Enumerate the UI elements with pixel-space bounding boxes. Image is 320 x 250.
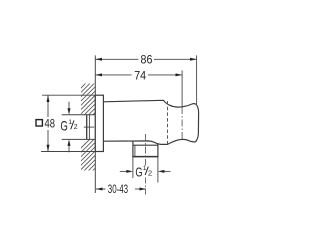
square 48 top arrow bbox=[47, 95, 50, 102]
outlet centre line bbox=[145, 134, 147, 166]
holder right edge bbox=[195, 104, 198, 142]
svg-text:30-43: 30-43 bbox=[108, 182, 129, 196]
svg-text:G: G bbox=[60, 119, 68, 134]
left G1/2 up arrow bbox=[68, 143, 70, 152]
dimension 74 right extension line becoming holder centre line bbox=[181, 70, 183, 107]
svg-text:G: G bbox=[135, 165, 142, 180]
wall hatching bbox=[79, 72, 97, 189]
square 48 bottom arrow bbox=[47, 145, 50, 152]
square flange escutcheon bbox=[95, 95, 103, 151]
svg-text:1: 1 bbox=[68, 119, 72, 126]
body bottom edge and holder bottom wave bbox=[103, 139, 195, 144]
G1/2 inlet behind wall top edge with left extension bbox=[62, 114, 96, 116]
inlet centre line tick bbox=[84, 126, 94, 128]
bottom G1/2 left extension line bbox=[132, 157, 134, 178]
outlet nut shoulder line bbox=[133, 144, 158, 146]
outlet nut bottom edge bbox=[132, 156, 158, 158]
dimension 74 right arrow bbox=[176, 73, 183, 76]
dimension 74 line bbox=[95, 74, 182, 76]
square symbol bbox=[36, 120, 42, 126]
inlet thread relief line bbox=[88, 115, 90, 140]
svg-text:74: 74 bbox=[134, 69, 146, 82]
outlet boss right edge bbox=[157, 143, 159, 157]
square 48 dimension bottom extension line bbox=[41, 151, 95, 153]
dimension 86 right extension line bbox=[196, 55, 198, 104]
bottom G1/2 right arrow bbox=[164, 170, 171, 172]
left G1/2 down arrow bbox=[68, 102, 70, 111]
square 48 dimension line bbox=[47, 95, 49, 117]
dimension 86 line bbox=[95, 58, 196, 60]
svg-text:86: 86 bbox=[141, 53, 153, 66]
square 48 dimension top extension line bbox=[42, 94, 95, 96]
outlet thread relief line bbox=[134, 145, 136, 156]
30-43 right arrow bbox=[140, 188, 147, 191]
G1/2 inlet bottom edge with left extension bbox=[62, 138, 96, 140]
inlet thread left edge bbox=[86, 115, 88, 140]
30-43 left arrow bbox=[96, 188, 103, 191]
wall face line / left extension line for 86 74 and 30-43 bbox=[94, 55, 96, 193]
dimension 86 left arrow bbox=[95, 58, 102, 61]
svg-text:2: 2 bbox=[148, 168, 152, 177]
bottom G1/2 left arrow bbox=[120, 170, 127, 172]
svg-text:48: 48 bbox=[45, 118, 56, 131]
body top edge and holder saddle curve bbox=[103, 100, 195, 107]
holder hidden edge dashed line bbox=[167, 101, 169, 144]
bottom G1/2 right extension line bbox=[157, 157, 159, 183]
dimension 74 left arrow bbox=[95, 73, 102, 76]
outlet boss left edge bbox=[132, 141, 134, 157]
30-43 dimension line bbox=[96, 188, 106, 190]
dimension 86 right arrow bbox=[190, 58, 197, 61]
svg-text:2: 2 bbox=[74, 124, 78, 131]
